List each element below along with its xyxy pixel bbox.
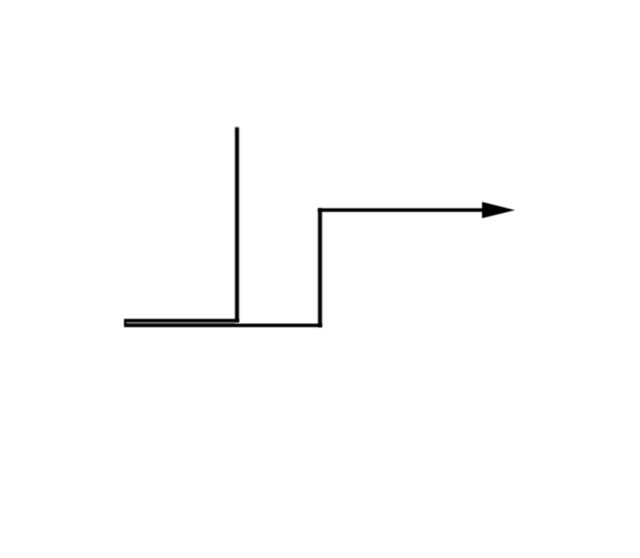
wire: gap filler between baselines (127, 322, 235, 324)
wire: output line to arrow (318, 208, 484, 212)
wire: tall vertical line (235, 127, 239, 322)
wire: short upper baseline (124, 319, 239, 322)
wire: step vertical (318, 208, 322, 327)
arrowhead (482, 202, 515, 218)
wire: long lower baseline (124, 324, 322, 327)
wire: left-end gap plug (124, 322, 127, 324)
